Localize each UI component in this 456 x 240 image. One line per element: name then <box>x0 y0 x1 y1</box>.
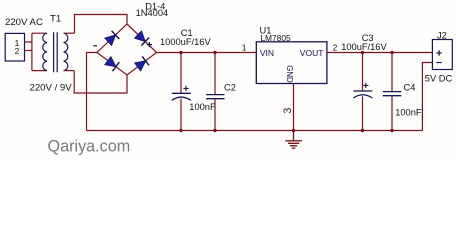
wire U1 VOUT to J2 plus <box>327 52 433 54</box>
transformer T1 secondary bottom stub <box>64 70 75 72</box>
capacitor C1 top wire <box>180 53 182 94</box>
svg-text:GND: GND <box>285 65 294 83</box>
svg-text:C2: C2 <box>224 82 236 92</box>
svg-text:C4: C4 <box>404 83 416 93</box>
svg-text:1: 1 <box>242 43 247 53</box>
bridge diamond wires <box>97 24 157 75</box>
capacitor C4 bottom wire <box>391 96 393 131</box>
capacitor C4 plates <box>383 92 402 96</box>
bridge minus label <box>93 45 97 47</box>
wire jog bar to transformer <box>32 33 47 70</box>
capacitor C1 plus plate <box>172 92 191 94</box>
diode D2 top-right <box>134 31 149 46</box>
capacitor C1 plus sign <box>183 86 188 91</box>
capacitor C3 plus sign <box>363 83 368 88</box>
capacitor C2 bottom wire <box>214 99 216 131</box>
junction dot C2 top <box>213 51 216 54</box>
diode D4 bottom-right <box>134 56 149 71</box>
junction dot C1 top <box>179 51 182 54</box>
transformer T1 primary winding <box>43 33 47 70</box>
wire secondary bottom to bridge bottom <box>74 71 127 93</box>
ground rail wire <box>87 130 423 132</box>
connector J2 box <box>432 40 452 70</box>
svg-text:220V AC: 220V AC <box>5 17 43 28</box>
capacitor C4 top wire <box>391 53 393 92</box>
capacitor C1 minus plate arc <box>172 97 191 100</box>
junction dot C2 bottom <box>213 129 216 132</box>
svg-text:VOUT: VOUT <box>300 48 324 58</box>
wire ground rail to J2 minus <box>422 63 432 131</box>
diode D1 top-left <box>104 31 119 46</box>
connector J1 pin 1 stub <box>25 41 32 43</box>
capacitor C3 minus plate arc <box>353 95 372 98</box>
svg-text:2: 2 <box>333 43 338 53</box>
junction dot C1 bottom <box>179 129 182 132</box>
transformer T1 secondary top stub <box>64 32 75 34</box>
capacitor C2 top wire <box>214 53 216 95</box>
transformer T1 secondary winding <box>64 33 68 70</box>
wire bridge minus to ground rail <box>87 53 98 131</box>
svg-text:Qariya.com: Qariya.com <box>48 137 131 155</box>
capacitor C3 bottom wire <box>362 96 364 130</box>
ground symbol <box>285 131 302 149</box>
junction dot pin3 ground <box>292 129 295 132</box>
transformer T1 core <box>54 32 58 72</box>
wire secondary top to bridge top <box>75 15 128 34</box>
junction dot C3 top <box>361 51 364 54</box>
svg-text:2: 2 <box>15 46 20 56</box>
svg-text:1N4004: 1N4004 <box>136 8 169 18</box>
svg-text:100nF: 100nF <box>395 107 422 117</box>
capacitor C1 bottom wire <box>180 99 182 131</box>
svg-text:T1: T1 <box>50 14 61 25</box>
wire bridge plus to U1 VIN <box>157 52 257 54</box>
connector J1 pin 2 stub <box>25 50 32 52</box>
svg-text:3: 3 <box>282 108 294 114</box>
connector J2 minus pin label <box>436 62 441 64</box>
bridge plus label <box>147 42 152 47</box>
U1 pin 3 wire <box>293 84 295 131</box>
connector J1 box <box>5 33 24 61</box>
svg-text:100uF/16V: 100uF/16V <box>341 42 387 52</box>
svg-text:VIN: VIN <box>260 48 274 58</box>
svg-text:5V DC: 5V DC <box>425 73 453 83</box>
connector J2 plus pin label <box>436 50 441 55</box>
svg-text:1000uF/16V: 1000uF/16V <box>160 37 211 47</box>
capacitor C3 top wire <box>362 53 364 92</box>
regulator U1 box <box>256 42 327 84</box>
junction dot C4 top <box>390 51 393 54</box>
svg-text:220V / 9V: 220V / 9V <box>30 83 73 94</box>
junction dot C4 bottom <box>390 129 393 132</box>
capacitor C3 plus plate <box>353 90 372 92</box>
diode D3 bottom-left <box>104 56 119 71</box>
svg-text:100nF: 100nF <box>189 102 216 112</box>
capacitor C2 plates <box>206 95 225 99</box>
junction dot C3 bottom <box>361 129 364 132</box>
